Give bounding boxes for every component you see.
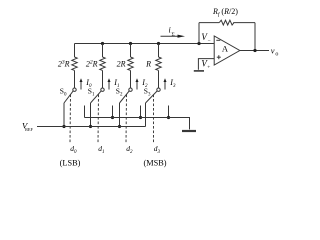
control line d2 (dashed) xyxy=(125,95,128,144)
control line d0 (dashed) xyxy=(69,95,72,144)
wire op-amp plus input xyxy=(198,59,214,70)
op-amp U1 triangle xyxy=(214,36,240,65)
svg-text:d3: d3 xyxy=(154,144,161,155)
svg-text:S3: S3 xyxy=(144,86,151,97)
wire S3 left throw to Vref xyxy=(145,103,147,127)
svg-text:22R: 22R xyxy=(86,59,98,68)
node top-bus junction at branch 2 xyxy=(101,42,104,45)
svg-text:R: R xyxy=(145,59,151,68)
svg-text:S1: S1 xyxy=(88,86,95,97)
current arrow I2 xyxy=(136,82,138,90)
wire feedback top rail left xyxy=(199,22,219,24)
svg-text:S2: S2 xyxy=(116,86,123,97)
wire S1 right contact stub xyxy=(112,106,114,118)
svg-text:2R: 2R xyxy=(117,59,126,68)
svg-text:(LSB): (LSB) xyxy=(60,159,81,168)
svg-text:Σ: Σ xyxy=(172,32,175,38)
wire S0 left throw to Vref xyxy=(63,103,65,127)
wire branch3 upper xyxy=(130,44,132,58)
wire feedback left vertical xyxy=(198,23,200,44)
node S1 stub - ground bus junction xyxy=(111,116,114,119)
resistor R0 2^3R xyxy=(72,57,77,70)
ground plus-input symbol xyxy=(194,70,204,72)
control line d3 (dashed) xyxy=(153,95,155,144)
svg-text:Rf (R/2): Rf (R/2) xyxy=(212,7,238,18)
resistor R2 2R xyxy=(128,57,133,70)
switch S3 pole circle xyxy=(157,88,160,91)
node top-bus junction at branch 4 xyxy=(157,42,160,45)
wire S1 left throw to Vref xyxy=(90,103,92,127)
switch S2 lever xyxy=(120,91,130,103)
svg-text:o: o xyxy=(275,51,278,57)
svg-text:−: − xyxy=(208,38,211,44)
wire top summing bus xyxy=(75,43,215,45)
svg-text:d1: d1 xyxy=(98,144,104,155)
svg-text:d0: d0 xyxy=(70,144,77,155)
node S3 stub - ground bus junction xyxy=(167,116,170,119)
current arrow I3 xyxy=(164,82,166,90)
wire ground bus xyxy=(85,118,190,130)
node V- summing node (feedback tap) xyxy=(197,42,200,45)
wire feedback right vertical xyxy=(254,23,256,51)
switch S3 lever xyxy=(146,91,158,103)
svg-text:I3: I3 xyxy=(169,78,176,89)
wire S3 right contact stub xyxy=(168,106,170,118)
svg-text:A: A xyxy=(222,44,229,54)
wire feedback top rail right xyxy=(233,22,255,24)
resistor Rf xyxy=(219,20,234,25)
svg-text:+: + xyxy=(207,65,210,71)
svg-text:v: v xyxy=(271,45,275,55)
wire branch4 lower xyxy=(158,71,160,89)
node S2 stub - ground bus junction xyxy=(139,116,142,119)
svg-text:(MSB): (MSB) xyxy=(143,159,166,168)
wire branch1 upper xyxy=(74,44,76,58)
node S2-Vref junction xyxy=(118,125,121,128)
switch S0 lever xyxy=(64,91,73,103)
resistor R1 2^2R xyxy=(100,57,105,70)
control line d1 (dashed) xyxy=(97,95,100,144)
resistor R3 R xyxy=(156,57,161,70)
wire op-amp output xyxy=(240,50,269,52)
wire branch2 upper xyxy=(102,44,104,58)
switch S1 pole circle xyxy=(101,88,104,91)
node S0-Vref junction xyxy=(62,125,65,128)
op-amp plus sign xyxy=(217,56,221,58)
switch S2 pole circle xyxy=(129,88,132,91)
svg-text:REF: REF xyxy=(25,127,33,132)
svg-text:d2: d2 xyxy=(126,144,133,155)
svg-text:23R: 23R xyxy=(58,59,70,68)
svg-text:i: i xyxy=(169,26,171,35)
svg-text:S0: S0 xyxy=(60,86,67,97)
wire VREF bus xyxy=(37,126,146,128)
wire S2 right contact stub xyxy=(140,106,142,118)
wire branch4 upper xyxy=(158,44,160,58)
wire S2 left throw to Vref xyxy=(119,103,121,127)
node S1-Vref junction xyxy=(89,125,92,128)
current arrow I1 xyxy=(108,82,110,90)
node top-bus junction at branch 3 xyxy=(129,42,132,45)
op-amp minus sign xyxy=(216,39,220,41)
wire branch1 lower xyxy=(74,71,76,89)
wire branch2 lower xyxy=(102,71,104,89)
switch S0 pole circle xyxy=(73,88,76,91)
wire branch3 lower xyxy=(130,71,132,89)
node output-feedback junction xyxy=(253,49,256,52)
wire S0 right contact stub xyxy=(84,106,86,118)
current arrow i-sigma xyxy=(161,35,180,37)
switch S1 lever xyxy=(91,91,102,103)
current arrow I0 xyxy=(80,82,82,90)
ground main symbol xyxy=(182,130,196,132)
